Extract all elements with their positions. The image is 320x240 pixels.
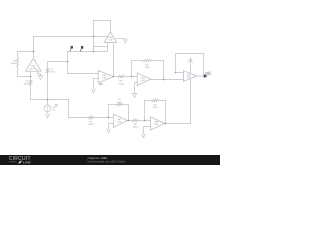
svg-text:10kΩ: 10kΩ bbox=[117, 102, 122, 104]
resistor R2 bbox=[29, 79, 32, 86]
wire OA5 output bbox=[127, 120, 131, 122]
svg-text:1.0M: 1.0M bbox=[31, 68, 36, 70]
wire OA7 output bbox=[196, 75, 203, 77]
wire OA2 right power stub bbox=[115, 38, 126, 39]
wire OA1 noninverting stub bbox=[38, 71, 41, 75]
svg-text:V1: V1 bbox=[53, 107, 56, 109]
svg-text:R7: R7 bbox=[118, 99, 122, 101]
wire OA1 feedback left lower bbox=[17, 67, 19, 76]
wire OA6 feedback top left bbox=[145, 100, 151, 102]
wire OA7 follower loop top bbox=[176, 53, 204, 55]
wire OA6 feedback right vertical bbox=[165, 101, 167, 124]
op-amp OA2 bbox=[104, 32, 116, 43]
wire OA5 feedback top right bbox=[123, 104, 128, 106]
wire OA3 noninverting stub bbox=[94, 79, 99, 89]
small node label near rail corner bbox=[55, 104, 58, 107]
svg-text:1.0M: 1.0M bbox=[154, 124, 159, 126]
wire bottom rail left bbox=[31, 99, 69, 101]
svg-text:R5: R5 bbox=[146, 64, 150, 66]
svg-text:10kΩ: 10kΩ bbox=[11, 63, 16, 65]
op-amp OA5 bbox=[113, 114, 127, 127]
wire OA1 output vertical bbox=[33, 37, 35, 59]
node flag A bbox=[70, 46, 73, 52]
node arrow up bbox=[189, 58, 193, 62]
wire R3 stem top bbox=[47, 62, 49, 68]
resistor R4 bbox=[117, 75, 125, 78]
wire R3 down to source bbox=[47, 74, 49, 105]
ground under OA4 bbox=[132, 94, 136, 98]
small node label near OA3 ground bbox=[99, 83, 103, 85]
junction dots bbox=[30, 36, 177, 125]
wire OA1 feedback loop top bbox=[18, 51, 34, 53]
voltage source V1 bbox=[44, 105, 51, 112]
op-amp OA3 bbox=[98, 70, 113, 83]
wire OA6 output up to node arrow bbox=[190, 62, 192, 124]
ground under OA1 bbox=[38, 76, 42, 80]
svg-text:http://circuitlab.com/c823x/6a: http://circuitlab.com/c823x/6ak5w bbox=[88, 160, 126, 164]
svg-text:10kΩ: 10kΩ bbox=[23, 83, 28, 85]
wire OA4 noninverting stub bbox=[135, 83, 138, 94]
wire OA2 feedback left vertical bbox=[93, 21, 95, 52]
svg-text:R3: R3 bbox=[50, 69, 54, 71]
resistor R1 bbox=[16, 57, 19, 67]
wire OA4 feedback left vertical bbox=[131, 61, 133, 77]
wire OA4 feedback top right bbox=[152, 60, 164, 62]
op-amp OA7 bbox=[184, 71, 197, 82]
svg-text:R1: R1 bbox=[13, 61, 17, 63]
svg-text:philgomez • link1: philgomez • link1 bbox=[88, 156, 108, 160]
svg-text:10kΩ: 10kΩ bbox=[119, 83, 124, 85]
op-amp OA1 bbox=[26, 58, 42, 71]
wire OA2 output vertical bbox=[110, 21, 112, 32]
wire OA6 feedback top right bbox=[159, 100, 166, 102]
wire R2 down to rail bbox=[30, 86, 32, 100]
ground arrow under OA3 bbox=[92, 89, 96, 93]
wire OA1 inverting input stub bbox=[30, 71, 32, 79]
component value labels bbox=[11, 61, 158, 129]
wire OA7 inverting input bbox=[176, 72, 184, 74]
wire OA2 feedback top bbox=[94, 20, 111, 22]
svg-text:10kΩ: 10kΩ bbox=[88, 124, 93, 126]
svg-text:R8: R8 bbox=[134, 124, 138, 126]
svg-text:R2: R2 bbox=[26, 81, 30, 83]
ground arrow under OA5 bbox=[107, 129, 111, 133]
wire top long from OA1 output to OA2 bbox=[34, 36, 108, 38]
svg-text:1.0M: 1.0M bbox=[117, 121, 122, 123]
resistor R6 bbox=[88, 116, 94, 119]
resistor R3 bbox=[46, 68, 49, 74]
svg-text:1.0M: 1.0M bbox=[102, 77, 107, 79]
wire V1 to ground bbox=[47, 112, 49, 114]
wire OA3 inverting input bbox=[68, 73, 99, 75]
svg-text:1V: 1V bbox=[53, 110, 56, 112]
svg-text:10kΩ: 10kΩ bbox=[50, 72, 55, 74]
svg-text:R4: R4 bbox=[120, 81, 124, 83]
op-amp OA4 bbox=[137, 73, 151, 86]
wire rail to OA5 horizontal left bbox=[69, 117, 88, 119]
svg-text:1.0M: 1.0M bbox=[187, 77, 192, 79]
wire OA7 loop left vertical bbox=[175, 54, 177, 73]
wire OA7 loop right vertical bbox=[203, 54, 205, 77]
wire OA6 output bbox=[164, 123, 190, 125]
wire R4 to OA4 bbox=[125, 76, 137, 78]
wire OA2 input stub left bbox=[107, 43, 109, 52]
resistor R9 bbox=[151, 99, 159, 102]
wire OA2 input stub long down to OA3 output bbox=[113, 43, 115, 77]
wire OA2 feedback bottom bbox=[94, 46, 108, 48]
resistor R7 bbox=[116, 103, 124, 106]
svg-text:10kΩ: 10kΩ bbox=[133, 127, 138, 129]
op-amp OA6 bbox=[151, 117, 165, 130]
wire OA5 feedback right vertical bbox=[128, 105, 130, 121]
wire R8 to OA6 bbox=[139, 120, 151, 122]
svg-text:LAB: LAB bbox=[23, 161, 31, 165]
wire stem top horizontal bbox=[48, 61, 68, 63]
svg-text:R6: R6 bbox=[89, 121, 93, 123]
wire OA1 feedback bottom bbox=[18, 76, 31, 78]
svg-text:1.0M: 1.0M bbox=[140, 80, 145, 82]
svg-text:1.0M: 1.0M bbox=[108, 39, 113, 41]
wire OA5 feedback top left bbox=[109, 104, 116, 106]
wire R6 to OA5 inverting input bbox=[94, 117, 113, 119]
svg-text:10kΩ: 10kΩ bbox=[152, 107, 157, 109]
wire node row y51 bbox=[68, 51, 108, 53]
node flag out bbox=[204, 71, 211, 77]
wire OA6 feedback left vertical bbox=[144, 101, 146, 121]
wire OA4 output to OA7 noninverting input bbox=[151, 79, 184, 81]
wire OA6 noninverting stub bbox=[144, 127, 151, 134]
node flag B bbox=[80, 46, 83, 52]
wire mid vertical x67 bbox=[67, 52, 69, 74]
ground arrow under OA6 bbox=[142, 134, 146, 138]
resistor R8 bbox=[131, 119, 139, 122]
wire OA4 feedback right vertical bbox=[163, 61, 165, 80]
ground arrow under V1 bbox=[46, 114, 50, 118]
wire OA5 feedback left vertical bbox=[108, 105, 110, 118]
ground arrow right of OA2 bbox=[124, 39, 128, 43]
bottom black bar bbox=[0, 155, 220, 165]
wire OA4 feedback top left bbox=[132, 60, 143, 62]
wire OA3 output to R4 bbox=[114, 76, 118, 78]
svg-text:R9: R9 bbox=[154, 104, 158, 106]
resistor R5 bbox=[143, 59, 152, 62]
wire OA5 noninverting stub bbox=[109, 124, 114, 129]
wire OA1 feedback left upper bbox=[17, 52, 19, 58]
svg-text:10kΩ: 10kΩ bbox=[145, 67, 150, 69]
wire rail to OA5 vertical bbox=[68, 100, 70, 118]
